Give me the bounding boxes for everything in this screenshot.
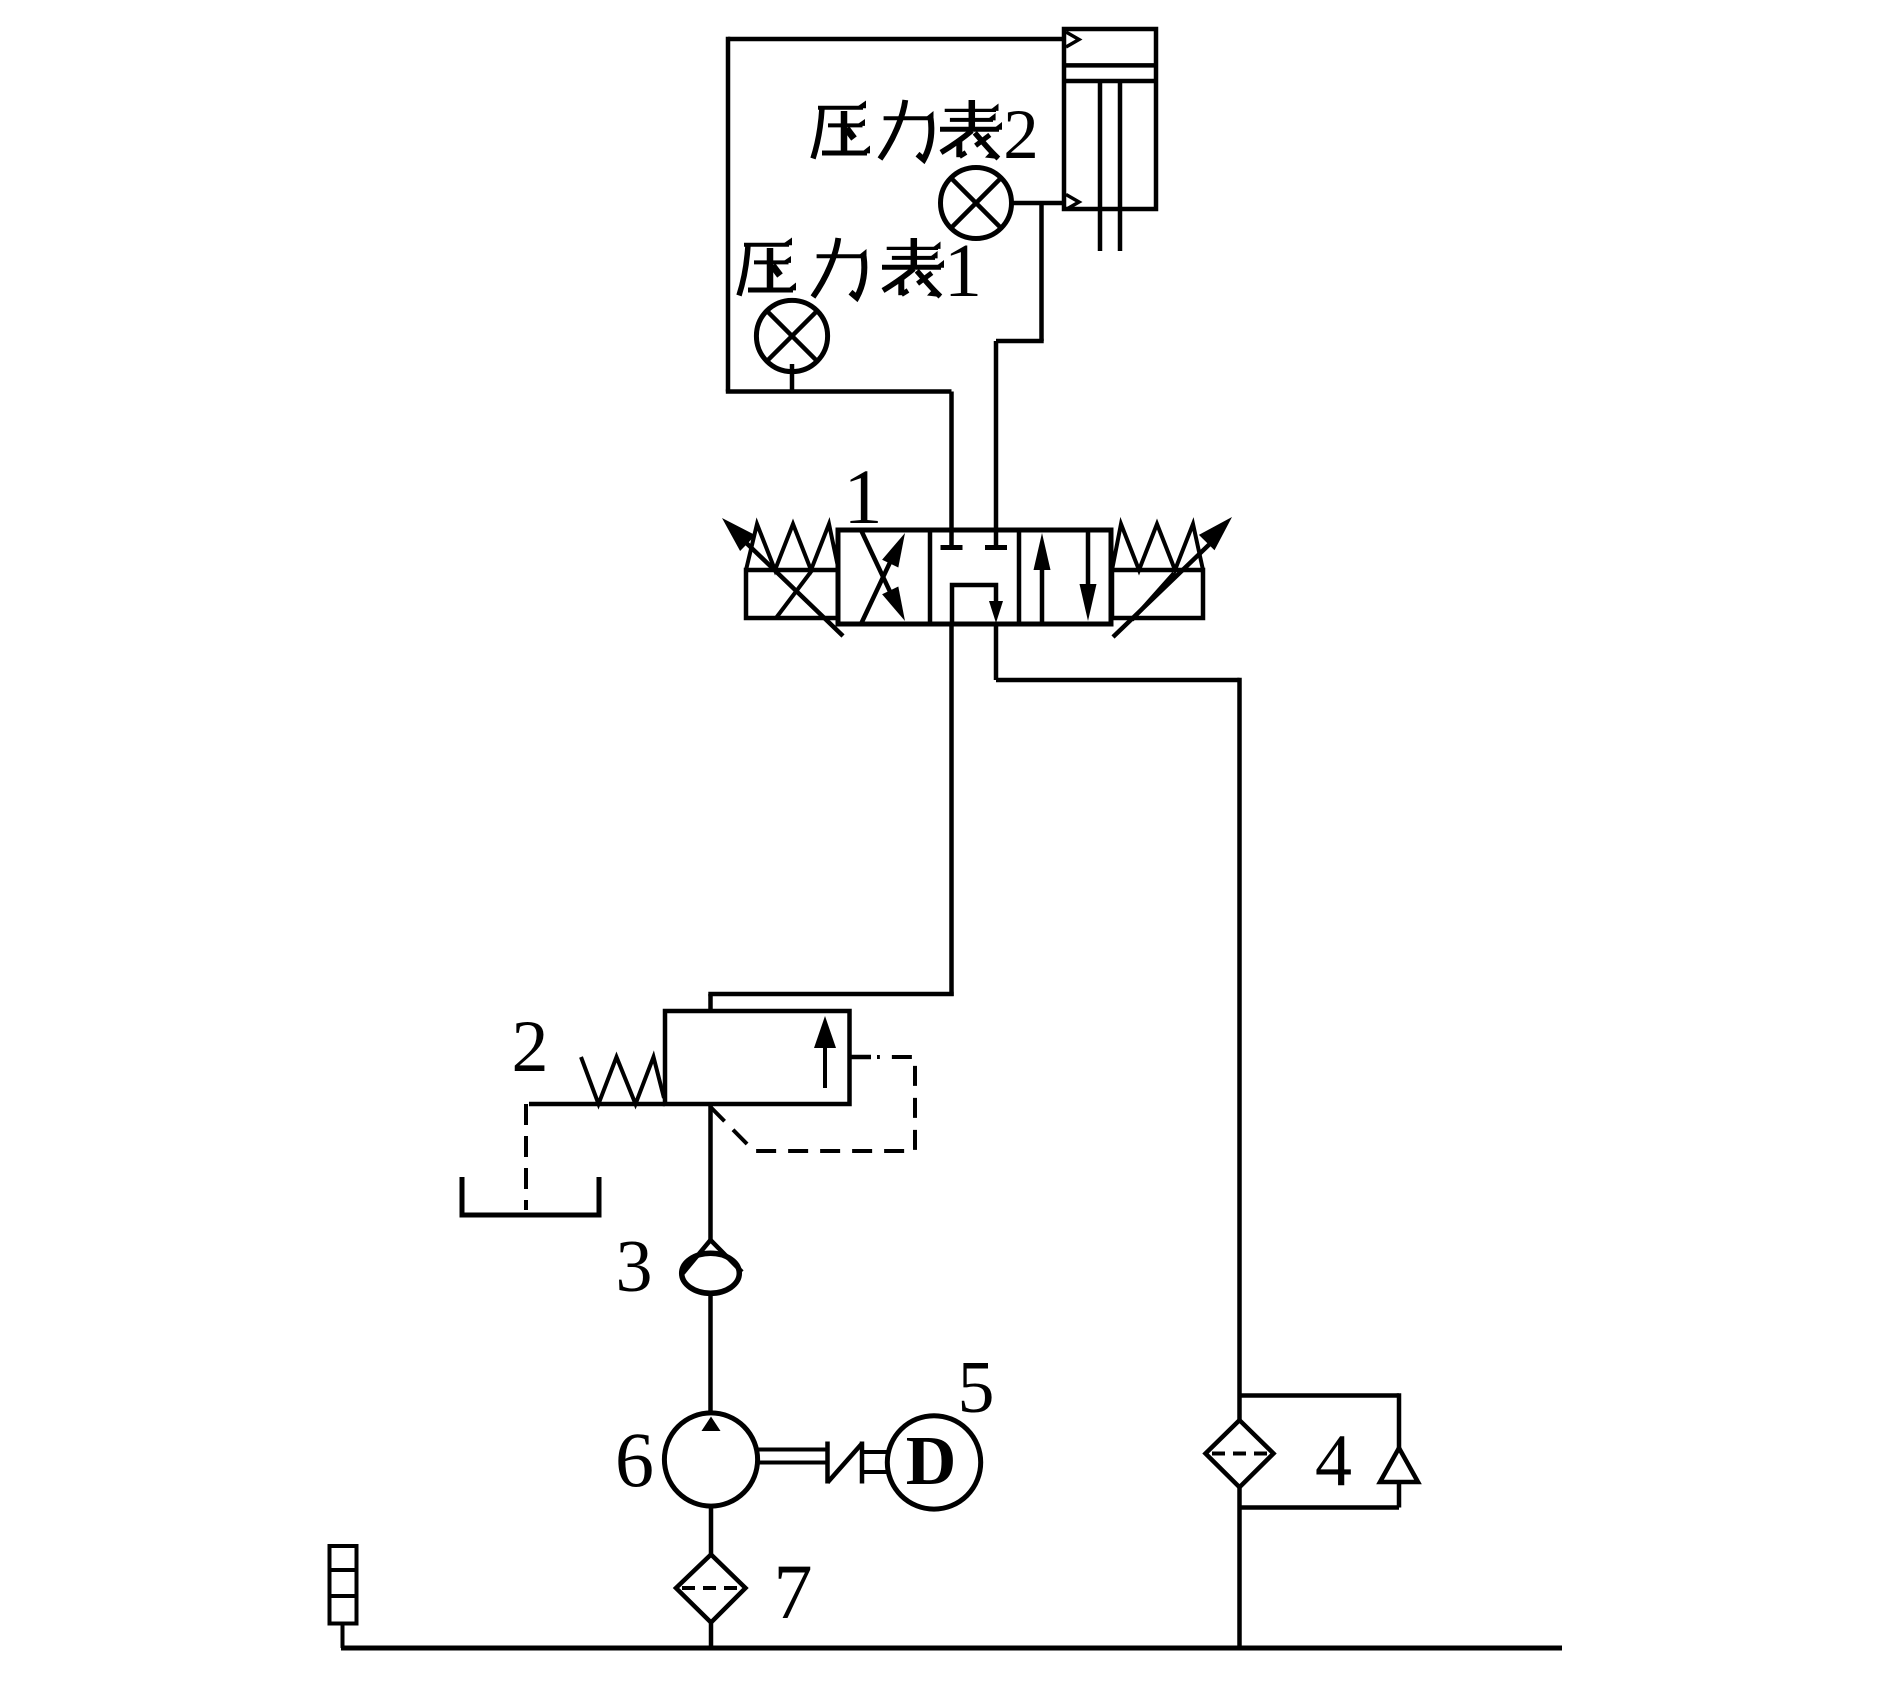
- pressure gauge 2: [941, 168, 1012, 239]
- tank symbol: [462, 1177, 599, 1215]
- relief valve pilot dashed line: [711, 1057, 916, 1151]
- svg-text:2: 2: [512, 1006, 549, 1088]
- relief valve drain line: [529, 1102, 665, 1107]
- filter 4 bypass top branch: [1240, 1393, 1400, 1398]
- valve left spring: [746, 524, 838, 570]
- filter 4 bypass bottom branch: [1240, 1505, 1400, 1510]
- svg-text:1: 1: [944, 229, 982, 313]
- wire branch down from gauge2 line: [1039, 203, 1044, 341]
- wire valve P port down: [949, 624, 954, 996]
- relief valve internal arrow: [814, 1016, 836, 1088]
- wire to relief valve: [708, 992, 953, 997]
- svg-text:3: 3: [616, 1226, 653, 1308]
- valve 1 body: [838, 530, 1111, 624]
- wire top horizontal to cylinder: [728, 37, 1064, 42]
- filter 7: [676, 1555, 746, 1623]
- valve right position arrow down: [1080, 530, 1097, 621]
- wire valve T port down: [994, 624, 999, 680]
- filter 4 stub: [1237, 1396, 1242, 1423]
- label 压力表1: [739, 229, 982, 313]
- valve center position P-T bypass arrow: [952, 585, 1003, 624]
- level gauge: [330, 1546, 357, 1624]
- wire gauge 2 to cylinder: [1011, 201, 1064, 206]
- wire pump to filter 7: [709, 1506, 714, 1555]
- wire loop bottom: [726, 389, 952, 394]
- pump 6: [664, 1413, 757, 1506]
- svg-text:2: 2: [1003, 96, 1039, 174]
- label 压力表2: [813, 96, 1039, 174]
- cylinder: [1064, 29, 1156, 251]
- wire T to right branch: [996, 678, 1240, 683]
- svg-text:D: D: [906, 1423, 957, 1500]
- valve right solenoid slash: [1132, 573, 1174, 620]
- cylinder bottom port chevron: [1066, 195, 1079, 210]
- wire bypass check down: [1397, 1482, 1402, 1508]
- check valve 3 ball: [682, 1253, 740, 1293]
- valve left proportional solenoid box: [746, 570, 838, 618]
- bypass check valve: [1380, 1448, 1418, 1482]
- valve right proportional arrow: [1113, 517, 1232, 637]
- wire gauge 1 stem: [790, 364, 795, 392]
- wire left vertical: [726, 37, 731, 392]
- wire filter 7 to tank line: [709, 1623, 714, 1649]
- svg-text:4: 4: [1315, 1420, 1352, 1502]
- svg-text:7: 7: [774, 1548, 813, 1635]
- motor coupling bracket: [864, 1452, 888, 1472]
- valve right position arrow up: [1034, 533, 1051, 624]
- coupling: [828, 1442, 863, 1484]
- relief valve drain dashed line: [524, 1104, 528, 1210]
- wire to valve right top port: [994, 341, 999, 530]
- wire level gauge stem: [341, 1624, 345, 1649]
- valve left position crossed arrow down: [861, 530, 905, 621]
- filter 4: [1206, 1420, 1274, 1487]
- valve left position crossed arrow up: [861, 533, 905, 624]
- valve center position blocked port B: [985, 530, 1007, 548]
- wire filter 4 to tank line: [1237, 1487, 1242, 1648]
- wire check valve to pump: [708, 1293, 713, 1415]
- valve right proportional solenoid box: [1112, 570, 1203, 618]
- valve center position blocked port A: [941, 530, 963, 548]
- valve left solenoid slash: [776, 569, 813, 618]
- wire relief valve outlet: [708, 1104, 713, 1240]
- wire right branch down to filter 4: [1237, 678, 1242, 1396]
- wire to valve left top port: [949, 392, 954, 531]
- check valve 3 seat: [683, 1240, 742, 1273]
- tank line: [341, 1646, 1562, 1651]
- relief valve 2 body: [665, 1011, 850, 1104]
- relief valve spring: [581, 1057, 664, 1104]
- pressure gauge 1: [756, 300, 827, 371]
- wire jog horizontal: [996, 339, 1044, 344]
- motor 5: [887, 1416, 980, 1509]
- valve left proportional arrow: [722, 518, 843, 636]
- cylinder top port chevron: [1066, 32, 1079, 47]
- svg-text:5: 5: [958, 1347, 995, 1429]
- svg-text:1: 1: [844, 453, 883, 540]
- wire bypass down to check: [1397, 1393, 1402, 1448]
- valve right spring: [1112, 524, 1203, 570]
- svg-text:6: 6: [615, 1416, 654, 1503]
- shaft double line: [758, 1450, 827, 1463]
- relief valve pilot stub: [849, 1055, 871, 1060]
- wire relief valve top stub: [708, 994, 713, 1011]
